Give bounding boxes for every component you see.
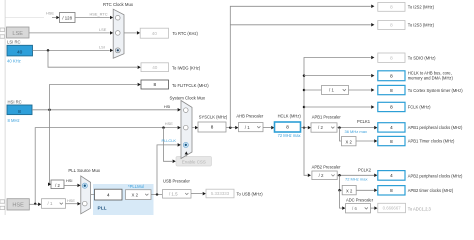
wire HCLK to APB1 prescaler: [301, 126, 311, 130]
svg-text:LSE: LSE: [99, 27, 107, 32]
svg-text:HCLK (MHz): HCLK (MHz): [278, 113, 302, 118]
wire Cortex prescaler to timer box: [349, 88, 375, 92]
wire APB1 prescaler to PCLK1: [337, 119, 377, 134]
svg-text:8: 8: [153, 82, 156, 87]
svg-text:HSE_RTC: HSE_RTC: [90, 11, 108, 16]
value box FCLK: [378, 102, 431, 111]
wire SYSCLK mux output: [192, 126, 198, 130]
wire SYSCLK to I2S2: [230, 5, 374, 128]
svg-text:SYSCLK (MHz): SYSCLK (MHz): [199, 115, 228, 120]
value box To USB: [206, 189, 263, 198]
wire HSE to PREDIV /1: [29, 203, 41, 207]
svg-text:/ 6: / 6: [352, 206, 357, 211]
wire APB2 to X2 multiplier: [338, 175, 342, 191]
svg-text:8: 8: [390, 5, 393, 10]
svg-text:*PLLMul: *PLLMul: [128, 184, 144, 189]
value box APB1 Timer clocks: [378, 136, 455, 145]
svg-text:HSE: HSE: [67, 198, 75, 203]
wire LSE to RTC mux: [29, 27, 113, 35]
wire AHB prescaler to HCLK: [263, 126, 274, 130]
svg-text:PLL Source Mux: PLL Source Mux: [68, 168, 100, 173]
svg-text:memory and DMA (MHz): memory and DMA (MHz): [408, 76, 454, 81]
wire PLL mux to PLL input: [91, 194, 95, 196]
svg-text:To USB (MHz): To USB (MHz): [237, 191, 264, 196]
dropdown APB1 Prescaler: [311, 115, 341, 133]
value box To Cortex System timer: [378, 85, 463, 94]
wire APB1 to X2 multiplier: [340, 128, 342, 141]
svg-text:8: 8: [390, 23, 393, 28]
svg-text:40: 40: [152, 65, 158, 70]
svg-text:RTC Clock Mux: RTC Clock Mux: [103, 2, 134, 7]
svg-text:APB1 Timer clocks (MHz): APB1 Timer clocks (MHz): [408, 138, 455, 143]
svg-text:4: 4: [390, 125, 393, 130]
svg-text:/ 2: / 2: [318, 125, 323, 130]
wire HSI down to /2: [50, 110, 51, 185]
pin OSC32_OUT: [0, 35, 5, 38]
dropdown USB Prescaler: [163, 179, 192, 198]
svg-text:APB1 peripheral clocks (MHz): APB1 peripheral clocks (MHz): [408, 125, 463, 130]
svg-text:40: 40: [152, 31, 158, 36]
svg-text:8 MHz: 8 MHz: [8, 118, 20, 123]
wire PLL output to USB prescaler: [151, 193, 162, 196]
dropdown PREDIV /1: [42, 199, 66, 209]
wire ADC prescaler to ADC box: [371, 206, 378, 210]
svg-text:Enable CSS: Enable CSS: [182, 159, 206, 164]
wire SYSCLK to I2S3: [230, 23, 374, 27]
wire PLLCLK to system mux: [157, 138, 181, 195]
divider /128: [60, 13, 76, 23]
value box To ADC: [378, 203, 432, 212]
svg-text:HSE: HSE: [12, 203, 24, 209]
pin OSC_OUT: [0, 206, 5, 209]
svg-text:X 2: X 2: [346, 139, 353, 144]
dropdown AHB Prescaler: [236, 113, 263, 131]
wire X2 to APB2 timer box: [356, 189, 377, 193]
svg-text:/ 1: / 1: [245, 125, 250, 130]
svg-text:To IWDG (KHz): To IWDG (KHz): [172, 65, 201, 70]
pin OSC_IN: [0, 200, 5, 203]
PLL block: [93, 184, 154, 215]
mux RTC Clock Mux: [103, 2, 134, 59]
wire LSI to RTC mux: [33, 44, 114, 52]
pin OSC32_IN: [0, 28, 5, 31]
svg-text:ADC Prescaler: ADC Prescaler: [346, 198, 374, 203]
dropdown APB2 Prescaler: [312, 164, 342, 179]
wire faint HSE from pin column: [6, 17, 45, 19]
svg-text:HSI: HSI: [66, 178, 73, 183]
wire HCLK to FCLK: [303, 105, 375, 109]
svg-text:System Clock Mux: System Clock Mux: [170, 95, 206, 100]
button Enable CSS: [176, 157, 212, 167]
dropdown ADC Prescaler: [346, 198, 374, 213]
svg-text:AHB Prescaler: AHB Prescaler: [236, 113, 263, 118]
value box To RTC: [140, 28, 198, 38]
svg-text:/ 2: / 2: [55, 183, 60, 188]
svg-text:LSI RC: LSI RC: [7, 39, 21, 44]
value box HCLK: [275, 113, 302, 138]
wire HCLK up-bus to SDIO: [304, 56, 374, 128]
wire HSE to Enable CSS: [164, 128, 176, 163]
svg-text:8: 8: [211, 125, 214, 130]
multiplier X2 APB1: [342, 137, 357, 146]
svg-text:APB1 Prescaler: APB1 Prescaler: [312, 115, 342, 120]
svg-text:To SDIO (MHz): To SDIO (MHz): [408, 56, 436, 61]
svg-text:To Cortex System timer (MHz): To Cortex System timer (MHz): [408, 88, 463, 93]
oscillator LSE: [7, 27, 30, 38]
wire HCLK to AHB bus: [303, 74, 375, 78]
oscillator HSE: [7, 199, 29, 210]
wire HSE to system mux: [34, 121, 181, 205]
svg-text:PLL: PLL: [98, 206, 107, 212]
svg-text:HSI: HSI: [164, 104, 171, 109]
dropdown PLLMul X2: [126, 190, 152, 200]
mux PLL Source Mux: [68, 168, 100, 214]
svg-text:72 MHz max: 72 MHz max: [345, 176, 367, 181]
svg-text:36 MHz max: 36 MHz max: [345, 129, 367, 134]
svg-text:5.333333: 5.333333: [211, 191, 230, 196]
svg-text:To I2S2 (MHz): To I2S2 (MHz): [408, 5, 435, 10]
value box To FLITFCLK: [141, 80, 209, 89]
svg-text:8: 8: [390, 55, 393, 60]
value box To I2S2: [378, 3, 435, 12]
wire HCLK to Cortex prescaler: [303, 89, 322, 92]
svg-text:PCLK1: PCLK1: [357, 119, 371, 124]
svg-text:HSE: HSE: [46, 11, 54, 16]
value box To SDIO: [378, 53, 436, 62]
svg-text:40 KHz: 40 KHz: [7, 59, 21, 64]
svg-text:X 2: X 2: [346, 189, 353, 194]
svg-text:APB2 timer clocks (MHz): APB2 timer clocks (MHz): [408, 188, 454, 193]
value box APB1 peripheral clocks: [378, 123, 463, 132]
svg-text:LSE: LSE: [12, 31, 23, 37]
wire X2 to APB1 timer box: [356, 139, 377, 143]
svg-text:To RTC (KHz): To RTC (KHz): [173, 31, 199, 36]
svg-text:To ADC1,2,3: To ADC1,2,3: [408, 206, 432, 211]
multiplier X2 APB2: [342, 185, 356, 194]
svg-text:8: 8: [390, 139, 393, 144]
svg-text:PLLCLK: PLLCLK: [162, 138, 177, 143]
svg-text:8: 8: [390, 188, 393, 193]
svg-text:0.666667: 0.666667: [383, 206, 402, 211]
svg-text:To FLITFCLK (MHz): To FLITFCLK (MHz): [172, 83, 209, 88]
svg-text:HSI RC: HSI RC: [8, 99, 22, 104]
svg-text:8: 8: [390, 73, 393, 78]
svg-text:/ 1: / 1: [48, 201, 53, 206]
wire /2 to PLL mux: [64, 178, 81, 187]
dropdown Cortex prescaler /1: [322, 86, 349, 95]
wire CSS to mux bottom: [185, 151, 188, 156]
value box HCLK to AHB bus: [378, 71, 454, 81]
wire HCLK down to APB2 prescaler: [304, 128, 311, 177]
wire HSE stub to /128: [46, 11, 60, 20]
value box PLL input: [95, 189, 123, 200]
svg-text:X 2: X 2: [131, 192, 138, 197]
svg-text:4: 4: [390, 173, 393, 178]
svg-text:USB Prescaler: USB Prescaler: [163, 179, 190, 184]
svg-text:8: 8: [286, 125, 289, 130]
svg-text:APB2 Prescaler: APB2 Prescaler: [312, 164, 342, 169]
svg-text:72 MHz max: 72 MHz max: [278, 133, 301, 138]
wire PREDIV to PLL mux: [66, 198, 81, 206]
wire HSI to FLITFCLK: [50, 83, 141, 110]
wire HSI to system mux: [32, 104, 181, 112]
value box To I2S3: [378, 21, 435, 30]
wire RTC mux output: [124, 31, 140, 35]
svg-text:8: 8: [18, 109, 21, 115]
wire APB2 prescaler to PCLK2: [337, 168, 377, 182]
value box APB2 timer clocks: [378, 186, 454, 195]
oscillator HSI RC: [7, 99, 32, 123]
wire USB prescaler to USB box: [191, 192, 206, 196]
svg-text:PCLK2: PCLK2: [358, 168, 372, 173]
svg-text:To I2S3 (MHz): To I2S3 (MHz): [408, 23, 435, 28]
wire APB2 down to ADC prescaler: [340, 190, 346, 210]
mux System Clock Mux: [170, 95, 206, 158]
wire HSE_RTC to RTC mux: [75, 11, 113, 19]
MCU pin-column border line: [4, 0, 6, 215]
svg-text:APB2 peripheral clocks (MHz): APB2 peripheral clocks (MHz): [408, 174, 463, 179]
svg-text:/ 128: / 128: [62, 15, 72, 20]
svg-text:HSE: HSE: [165, 121, 173, 126]
svg-text:/ 2: / 2: [319, 173, 324, 178]
wire LSI to IWDG: [48, 50, 141, 69]
oscillator LSI RC: [7, 39, 33, 63]
svg-text:/ 1: / 1: [329, 88, 334, 93]
svg-text:8: 8: [390, 105, 393, 110]
value box SYSCLK: [198, 115, 228, 133]
svg-text:4: 4: [107, 192, 110, 197]
svg-text:40: 40: [17, 50, 23, 56]
wire SYSCLK to AHB prescaler: [226, 126, 238, 130]
svg-text:8: 8: [390, 88, 393, 93]
divider /2: [48, 180, 64, 189]
label PLLMul: [128, 184, 144, 189]
svg-text:/ 1.5: / 1.5: [169, 192, 178, 197]
value box APB2 peripheral clocks: [378, 171, 463, 181]
value box To IWDG: [141, 63, 201, 72]
svg-text:LSI: LSI: [99, 44, 105, 49]
svg-text:FCLK (MHz): FCLK (MHz): [408, 104, 431, 109]
